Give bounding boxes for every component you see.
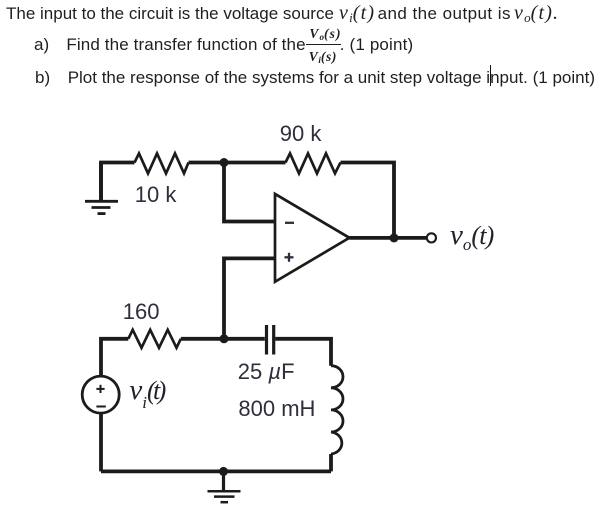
ground G2 — [208, 471, 241, 502]
wire inductor bottom — [329, 454, 333, 471]
wire inverting input — [224, 164, 275, 222]
wire 10k to junction A to 90k — [189, 161, 286, 165]
capacitor 25uF right plate — [272, 325, 275, 355]
label 160 — [123, 301, 160, 323]
capacitor 25uF left plate — [265, 325, 268, 355]
resistor 10k — [135, 153, 189, 173]
label vi(t) — [129, 376, 163, 408]
wire op-amp output — [349, 236, 426, 240]
voltage source vi(t) — [82, 376, 119, 413]
wire mid left vertical — [101, 339, 128, 377]
wire 160 to junction B to capacitor — [181, 337, 265, 341]
wire left vertical to top wire — [101, 163, 135, 201]
label vo(t) — [450, 221, 494, 253]
problem text line 1 — [6, 5, 334, 22]
output terminal — [427, 233, 436, 242]
text caret — [490, 65, 492, 86]
wire bottom rail — [101, 469, 331, 473]
node junction B — [220, 334, 229, 343]
label 10 k — [135, 184, 177, 206]
problem text line 2 — [34, 36, 49, 53]
problem text line 3 — [35, 69, 50, 86]
source plus sign — [96, 385, 104, 393]
op-amp U1 — [275, 194, 349, 282]
label 800 mH — [238, 398, 315, 420]
node junction bottom — [219, 467, 228, 476]
inductor 800mH — [331, 366, 343, 454]
wire capacitor to right corner — [275, 339, 331, 366]
wire below source — [99, 413, 103, 472]
resistor 160 — [128, 330, 181, 348]
node junction output — [390, 233, 399, 242]
op-amp plus sign — [285, 253, 294, 262]
op-amp minus sign — [285, 222, 294, 224]
wire non-inverting input — [224, 258, 275, 338]
fraction Vo(s)/Vi(s) — [309, 27, 341, 42]
label 90 k — [280, 123, 322, 145]
source minus sign — [96, 406, 105, 408]
node junction A — [220, 158, 229, 167]
ground G1 — [85, 163, 118, 214]
label 25 uF — [238, 361, 295, 383]
resistor 90k — [286, 153, 341, 173]
wire 90k to right corner down to output — [341, 163, 395, 238]
